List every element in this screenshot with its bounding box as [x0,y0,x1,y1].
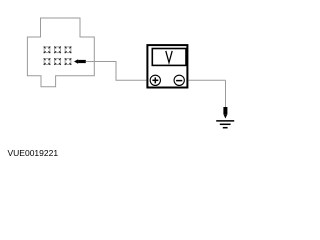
svg-text:VUE0019221: VUE0019221 [8,148,59,158]
